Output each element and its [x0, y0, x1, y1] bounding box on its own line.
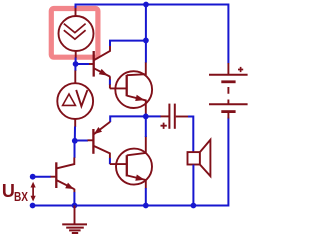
- transistor VT4 emitter: [127, 96, 146, 114]
- amplifier U1 delta symbol: [63, 94, 76, 105]
- speaker LS1 horn: [200, 140, 211, 176]
- transistor VT2 collector: [94, 45, 110, 60]
- transistor VT5 collector: [127, 136, 146, 155]
- wire collector node column: [145, 5, 147, 63]
- generator G1 circle: [59, 16, 94, 51]
- transistor VT5 emitter: [127, 175, 146, 188]
- battery GB1 top pin: [227, 63, 229, 75]
- wire VT1 emitter to bottom rail: [73, 189, 75, 193]
- wire generator to node A: [75, 58, 77, 65]
- battery GB1 bottom pin: [227, 112, 229, 119]
- wire output node to capacitor: [146, 115, 161, 117]
- svg-text:U: U: [2, 181, 15, 201]
- generator G1 chevron lower: [64, 30, 86, 39]
- capacitor C1 left pin: [160, 115, 168, 117]
- transistor VT4 collector: [127, 62, 146, 75]
- input voltage arrowhead down: [31, 196, 36, 202]
- capacitor C1 plus sign: [161, 123, 167, 129]
- input voltage arrowhead up: [31, 182, 36, 188]
- wire node A to amplifier: [74, 64, 76, 71]
- ground bar 4: [72, 232, 78, 234]
- wire top rail: [76, 5, 229, 64]
- wire bottom rail: [33, 118, 229, 206]
- transistor VT1 base pin: [50, 176, 56, 178]
- node C junction dot (top rail): [143, 2, 149, 8]
- node A junction dot: [73, 61, 79, 67]
- wire VT5 collector to output node: [145, 116, 147, 137]
- amplifier U1 V letter: [76, 90, 87, 106]
- transistor VT1 collector: [56, 158, 74, 169]
- transistor VT1 base bar: [55, 162, 57, 188]
- transistor VT5 circle: [116, 149, 152, 185]
- speaker LS1 box: [188, 152, 200, 164]
- transistor VT4 circle: [115, 71, 152, 108]
- svg-text:BX: BX: [14, 191, 28, 204]
- transistor VT2 base pin: [89, 63, 94, 65]
- battery GB1 long plate 2: [209, 103, 248, 105]
- battery GB1 plus sign: [238, 67, 243, 72]
- capacitor C1 right plate: [174, 104, 176, 129]
- wire VT5 emitter to bottom rail: [145, 188, 147, 206]
- node H junction dot (ground junction): [72, 203, 78, 209]
- ground stem: [74, 206, 76, 225]
- transistor VT5 base bar: [126, 155, 128, 176]
- transistor VT5 base pin: [110, 163, 127, 165]
- transistor VT3 base pin: [88, 139, 94, 141]
- wire VT2 collector riser: [110, 41, 146, 46]
- node I junction dot (input bottom / rail left end): [30, 203, 36, 209]
- transistor VT4 base bar: [126, 75, 128, 96]
- ground bar 2: [66, 227, 84, 229]
- generator G1 bottom pin: [75, 51, 77, 58]
- battery GB1 dashed link: [227, 87, 229, 104]
- transistor VT1 emitter arrowhead: [65, 183, 74, 189]
- wire VT3 collector to VT5 base: [109, 158, 111, 164]
- wire node B to VT3 base: [75, 140, 88, 142]
- wire node B down to VT1 collector: [74, 141, 76, 158]
- node G junction dot (input top): [30, 174, 36, 180]
- wire VT2 emitter to VT4 base: [109, 76, 111, 80]
- wire node A to VT2 base: [76, 63, 90, 65]
- generator G1 top pin: [75, 8, 77, 17]
- ground bar 1: [62, 223, 87, 225]
- wire input node to VT1 base: [33, 176, 51, 178]
- highlight box around generator: [51, 9, 98, 58]
- transistor VT4 emitter arrowhead: [135, 95, 145, 101]
- generator G1 chevron upper: [64, 24, 86, 33]
- node D junction dot (collector node): [143, 38, 149, 44]
- amplifier U1 circle: [57, 83, 93, 119]
- node J junction dot (speaker at rail): [191, 203, 197, 209]
- ground bar 3: [69, 229, 81, 231]
- transistor VT5 emitter arrowhead: [135, 175, 144, 181]
- battery GB1 short plate 1: [221, 80, 235, 83]
- transistor VT2 emitter: [94, 68, 110, 76]
- amplifier U1 bottom pin: [74, 119, 76, 127]
- wire amplifier to node B: [74, 127, 76, 141]
- wire speaker to bottom rail: [192, 165, 194, 206]
- amplifier U1 top pin: [74, 71, 76, 84]
- transistor VT3 base bar: [92, 129, 94, 154]
- node E junction dot (output node): [143, 114, 149, 120]
- capacitor C1 left plate: [168, 104, 170, 129]
- node B junction dot: [72, 138, 78, 144]
- capacitor C1 right pin: [176, 116, 189, 118]
- transistor VT3 emitter arrowhead: [94, 127, 102, 134]
- wire VT4 emitter to output node: [145, 114, 147, 117]
- wire capacitor to speaker: [188, 117, 193, 153]
- battery GB1 short plate 2: [221, 110, 235, 113]
- transistor VT1 emitter: [56, 180, 74, 189]
- battery GB1 long plate 1: [209, 74, 248, 76]
- transistor VT3 emitter: [94, 122, 110, 134]
- transistor VT2 base bar: [93, 51, 95, 77]
- input voltage arrow shaft: [32, 184, 34, 199]
- transistor VT2 emitter arrowhead: [99, 69, 108, 76]
- transistor VT4 base pin: [110, 87, 127, 89]
- node F junction dot (emitter at rail): [143, 203, 149, 209]
- transistor VT3 collector: [93, 146, 110, 159]
- wire output node to VT3 emitter: [110, 116, 146, 122]
